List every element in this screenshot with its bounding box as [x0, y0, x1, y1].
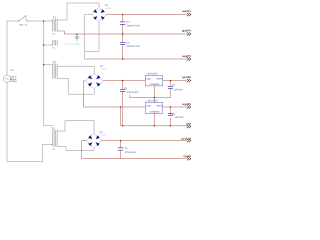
- svg-text:VREG: VREG: [156, 77, 162, 80]
- svg-text:3N246: 3N246: [100, 134, 107, 137]
- svg-text:470uF-50V: 470uF-50V: [125, 151, 137, 154]
- svg-text:470uF-50V: 470uF-50V: [127, 91, 139, 94]
- svg-text:COMMON: COMMON: [150, 110, 160, 113]
- svg-text:LINE: LINE: [146, 77, 151, 80]
- svg-text:0 Deg: 0 Deg: [10, 80, 17, 83]
- svg-text:VREG: VREG: [156, 104, 162, 107]
- svg-text:3N246: 3N246: [105, 7, 112, 10]
- svg-text:2200uF-50V: 2200uF-50V: [127, 24, 141, 27]
- svg-text:1uF-50V: 1uF-50V: [175, 116, 185, 119]
- svg-text:Key = A: Key = A: [20, 24, 28, 27]
- svg-text:LM7915CT: LM7915CT: [147, 100, 159, 103]
- svg-text:gnd27V: gnd27V: [182, 30, 191, 33]
- svg-text:pos15V: pos15V: [182, 76, 191, 79]
- svg-text:neg27V: neg27V: [182, 55, 191, 58]
- svg-text:LM7815CT: LM7815CT: [147, 73, 159, 76]
- svg-text:pos27V: pos27V: [182, 10, 191, 13]
- svg-text:COMMON: COMMON: [150, 83, 160, 86]
- svg-text:3N246: 3N246: [100, 67, 107, 70]
- svg-text:LINE: LINE: [146, 104, 151, 107]
- svg-text:neg15V: neg15V: [182, 103, 191, 106]
- svg-text:1uF-50V: 1uF-50V: [173, 88, 183, 91]
- svg-text:2200uF-50V: 2200uF-50V: [127, 45, 141, 48]
- svg-text:25.2V 2A 60Hz: 25.2V 2A 60Hz: [65, 43, 82, 46]
